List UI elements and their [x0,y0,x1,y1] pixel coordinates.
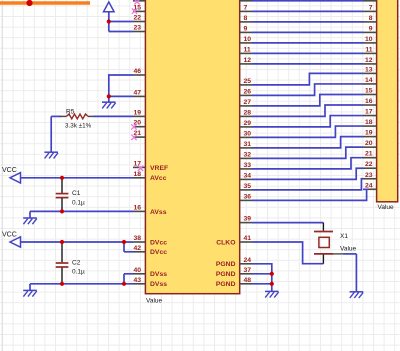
svg-text:16: 16 [365,98,373,105]
svg-text:18: 18 [133,171,141,178]
svg-text:29: 29 [244,120,252,127]
svg-text:32: 32 [244,151,252,158]
svg-text:19: 19 [133,109,141,116]
svg-text:Value: Value [146,297,163,304]
svg-text:39: 39 [244,216,252,223]
svg-text:23: 23 [133,25,141,32]
svg-text:12: 12 [244,57,252,64]
svg-text:10: 10 [244,36,252,43]
svg-text:DVcc: DVcc [150,239,167,246]
svg-text:11: 11 [244,46,251,53]
svg-text:18: 18 [365,119,373,126]
svg-text:11: 11 [365,46,372,53]
svg-text:30: 30 [244,130,252,137]
svg-text:CLKO: CLKO [216,239,235,246]
svg-text:27: 27 [244,99,252,106]
svg-text:25: 25 [244,78,252,85]
svg-text:3.3k ±1%: 3.3k ±1% [65,123,92,130]
svg-text:19: 19 [365,130,373,137]
svg-text:33: 33 [244,162,252,169]
svg-text:0.1µ: 0.1µ [72,199,85,206]
svg-text:PGND: PGND [216,281,236,288]
svg-text:8: 8 [369,15,373,22]
svg-text:31: 31 [244,141,252,148]
svg-text:DVcc: DVcc [150,249,167,256]
svg-text:34: 34 [244,172,252,179]
svg-text:28: 28 [244,109,252,116]
svg-text:24: 24 [365,182,373,189]
svg-text:42: 42 [133,245,141,252]
svg-text:VCC: VCC [2,167,17,174]
svg-text:21: 21 [365,151,373,158]
svg-text:12: 12 [365,57,373,64]
svg-text:26: 26 [244,88,252,95]
svg-text:40: 40 [133,267,141,274]
svg-text:15: 15 [365,87,373,94]
svg-text:17: 17 [365,109,373,116]
svg-text:16: 16 [133,204,141,211]
svg-text:37: 37 [244,267,252,274]
svg-text:9: 9 [369,25,373,32]
svg-text:VCC: VCC [2,232,17,239]
svg-text:35: 35 [244,183,252,190]
svg-text:47: 47 [133,89,141,96]
svg-text:PGND: PGND [216,271,236,278]
svg-text:17: 17 [133,160,141,167]
svg-text:C2: C2 [72,259,81,266]
svg-text:10: 10 [365,36,373,43]
svg-text:Value: Value [340,245,357,252]
svg-text:R5: R5 [66,109,75,116]
svg-text:7: 7 [244,4,248,11]
svg-text:20: 20 [365,140,373,147]
svg-text:23: 23 [365,172,373,179]
svg-text:43: 43 [133,277,141,284]
svg-text:22: 22 [133,15,141,22]
svg-text:24: 24 [244,257,252,264]
svg-text:14: 14 [365,77,373,84]
svg-text:VREF: VREF [150,165,168,172]
svg-text:46: 46 [133,68,141,75]
svg-text:38: 38 [133,235,141,242]
svg-text:AVcc: AVcc [150,175,167,182]
svg-text:13: 13 [365,66,373,73]
svg-text:36: 36 [244,193,252,200]
svg-text:22: 22 [365,161,373,168]
svg-text:7: 7 [369,4,373,11]
svg-text:C1: C1 [72,190,81,197]
svg-text:PGND: PGND [216,261,236,268]
svg-text:Value: Value [378,204,395,211]
svg-text:41: 41 [244,235,252,242]
svg-text:48: 48 [244,277,252,284]
svg-text:DVss: DVss [150,281,167,288]
svg-text:9: 9 [244,25,248,32]
svg-text:0.1µ: 0.1µ [72,269,85,276]
svg-text:AVss: AVss [150,209,167,216]
svg-text:8: 8 [244,15,248,22]
svg-text:DVss: DVss [150,271,167,278]
svg-text:X1: X1 [340,233,348,240]
